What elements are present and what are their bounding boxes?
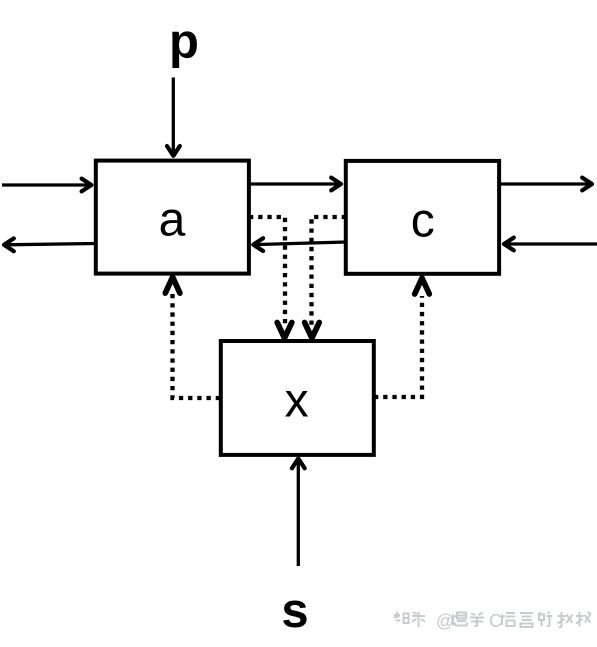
wire: dotted arrow from box c down into box x	[312, 217, 347, 328]
svg-text:C: C	[489, 611, 502, 631]
wm glyph zhao	[558, 612, 573, 627]
wire: dotted arrow from box x up into box a	[173, 291, 221, 398]
wm glyph wo	[576, 612, 591, 627]
wm glyph xue	[470, 613, 484, 627]
svg-text:@: @	[436, 611, 454, 631]
box c	[346, 161, 499, 274]
box x	[221, 341, 374, 455]
wire: arrow from box c to box a	[253, 238, 346, 251]
wire: arrow s into box x (vertical)	[292, 459, 305, 567]
wire: arrow into box c from right	[504, 238, 597, 251]
wire: dotted arrow from box a down into box x	[249, 217, 285, 328]
svg-text:s: s	[281, 584, 308, 638]
wire: arrow out of box c to right	[500, 178, 592, 191]
wm glyph yan	[520, 613, 533, 627]
wm glyph zhi	[394, 612, 409, 624]
wm glyph yu	[502, 613, 515, 626]
svg-text:c: c	[411, 195, 435, 248]
svg-text:x: x	[285, 375, 309, 428]
svg-text:p: p	[169, 15, 199, 69]
wire: arrow out of box a to left	[4, 238, 96, 251]
watermark: Zhihu credit (faint gray pseudo-glyphs)	[394, 611, 591, 631]
svg-text:a: a	[159, 194, 186, 247]
wire: arrow p into box a (vertical)	[167, 78, 180, 156]
wire: dotted arrow from box x up into box c	[374, 296, 422, 397]
wm glyph de	[539, 612, 552, 626]
wm glyph xiang	[453, 613, 467, 626]
wm glyph hu	[412, 612, 425, 628]
wire: arrow into box a from left	[2, 179, 92, 192]
box a	[96, 161, 249, 274]
wire: arrow from box a to box c	[249, 178, 341, 191]
